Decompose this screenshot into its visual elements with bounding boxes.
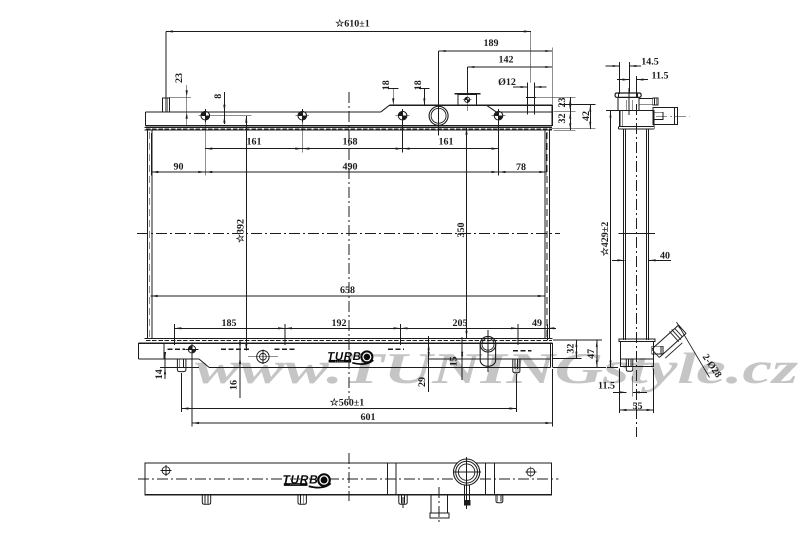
TURBO logo bottom view: [282, 473, 330, 487]
bottom view pin 3: [399, 495, 407, 505]
dim 11.5 bottom: [618, 369, 620, 414]
dim 8: [211, 115, 252, 117]
bottom header strip: [145, 337, 553, 339]
front horizontal centerline: [137, 232, 560, 234]
svg-text:42: 42: [581, 111, 592, 121]
side overflow nipple: [639, 98, 653, 104]
side inlet pipe: [653, 107, 678, 124]
svg-text:32: 32: [565, 344, 576, 354]
side core column: [622, 129, 624, 340]
svg-text:8: 8: [213, 94, 224, 99]
side centerline: [635, 104, 637, 437]
svg-text:15: 15: [449, 356, 460, 366]
dim 560: [181, 373, 183, 412]
dim row 90-490-78: [150, 133, 152, 176]
svg-text:18: 18: [381, 80, 392, 90]
svg-text:16: 16: [228, 380, 239, 390]
svg-text:90: 90: [174, 162, 184, 173]
svg-text:29: 29: [417, 377, 428, 387]
overflow fitting: [454, 93, 480, 95]
bottom view outlet box: [431, 495, 447, 513]
svg-text:658: 658: [340, 285, 355, 296]
dim O12: [513, 86, 528, 88]
bottom pin right: [513, 359, 520, 373]
svg-text:49: 49: [532, 318, 542, 329]
svg-text:192: 192: [332, 318, 347, 329]
dim row 185-192-205-49: [173, 324, 175, 345]
bottom tank slots: [168, 348, 186, 350]
dim 350: [466, 128, 468, 338]
front outlet pipe: [480, 336, 496, 352]
dim 189: [439, 50, 553, 52]
dim 47: [553, 366, 606, 368]
TURBO logo front: [327, 350, 373, 364]
svg-text:18: 18: [413, 80, 424, 90]
top screw 3: [398, 111, 407, 120]
svg-text:40: 40: [660, 251, 670, 262]
svg-text:11.5: 11.5: [598, 381, 615, 392]
svg-text:☆429±2: ☆429±2: [600, 222, 611, 256]
svg-text:32: 32: [557, 114, 568, 124]
left top pin stub: [162, 98, 169, 112]
bottom view body: [145, 463, 552, 495]
dim 658: [151, 295, 545, 297]
dim 601: [191, 353, 193, 427]
side outlet pipes: [652, 325, 679, 349]
side top tank: [620, 111, 654, 127]
bottom view pin 1: [202, 495, 210, 505]
dim row 161-168-161: [204, 120, 206, 176]
svg-text:▪▪▪▪▪: ▪▪▪▪▪: [335, 360, 345, 363]
dim 32 bottom: [553, 339, 602, 341]
svg-text:490: 490: [343, 162, 358, 173]
watermark www.TUNINGstyle.cz: [195, 344, 798, 393]
dim 40: [612, 259, 624, 261]
label 2-O28: [677, 322, 710, 378]
svg-text:161: 161: [247, 137, 262, 148]
bottom view screw right: [527, 468, 535, 476]
svg-text:14: 14: [154, 369, 165, 379]
filler neck: [429, 106, 448, 125]
dim 142: [467, 66, 552, 68]
svg-text:205: 205: [453, 318, 468, 329]
core right edge: [544, 130, 546, 338]
svg-text:Ø12: Ø12: [498, 77, 516, 88]
top screw 2: [298, 111, 307, 120]
svg-text:185: 185: [222, 318, 237, 329]
dim 11.5 top: [636, 76, 638, 98]
svg-text:601: 601: [361, 412, 376, 423]
svg-text:78: 78: [516, 162, 526, 173]
top screw 1: [201, 111, 210, 120]
svg-text:168: 168: [343, 137, 358, 148]
svg-text:23: 23: [174, 73, 185, 83]
dim 392: [245, 116, 247, 351]
dim 429: [606, 110, 618, 112]
bottom view outlet circle: [454, 459, 480, 485]
dim 14: [160, 366, 199, 368]
drain plug: [257, 351, 269, 363]
svg-text:55: 55: [633, 401, 643, 412]
bottom view pin 4: [496, 495, 503, 503]
bottom view vertical centerline: [348, 453, 350, 501]
bottom view centerline: [138, 478, 559, 480]
dim 14.5: [619, 62, 621, 94]
svg-text:161: 161: [439, 137, 454, 148]
bracket screw: [188, 346, 195, 353]
top tank: [146, 111, 382, 113]
svg-text:☆610±1: ☆610±1: [335, 19, 369, 30]
svg-text:350: 350: [456, 223, 467, 238]
side bottom tank: [619, 339, 655, 342]
dim 16: [239, 341, 241, 398]
svg-text:14.5: 14.5: [641, 57, 659, 68]
front vertical centerline: [348, 92, 350, 400]
svg-text:23: 23: [557, 98, 568, 108]
svg-text:☆560±1: ☆560±1: [330, 398, 364, 409]
core left edge: [147, 130, 149, 338]
bottom view screw left: [162, 467, 170, 475]
dim 15: [461, 337, 463, 380]
bottom tank: [138, 343, 140, 359]
dim 42: [560, 104, 596, 106]
dim 23 right: [528, 96, 576, 98]
bottom view pin 2: [298, 495, 306, 505]
svg-text:▪▪▪▪▪: ▪▪▪▪▪: [290, 483, 300, 486]
svg-text:189: 189: [484, 38, 499, 49]
dim 32 right-top: [554, 129, 576, 131]
dim 55: [653, 369, 655, 414]
side bottom pin: [626, 359, 633, 371]
svg-text:47: 47: [586, 349, 597, 359]
dim 29: [428, 336, 430, 392]
svg-text:☆392: ☆392: [236, 219, 247, 243]
dim 18 second: [423, 89, 425, 106]
top header strip: [145, 126, 553, 128]
side cap: [615, 93, 641, 97]
bottom view drain stem: [463, 485, 465, 506]
bottom pin left: [177, 359, 186, 372]
dim 610: [166, 31, 531, 33]
side column break tick: [618, 233, 655, 235]
svg-text:11.5: 11.5: [652, 71, 669, 82]
overflow tube O12: [527, 83, 529, 115]
top screw 4: [494, 111, 503, 120]
svg-text:142: 142: [499, 55, 514, 66]
dim 18 first: [392, 89, 394, 106]
dim 23 left: [170, 96, 191, 98]
bottom view joint lines: [386, 463, 388, 495]
